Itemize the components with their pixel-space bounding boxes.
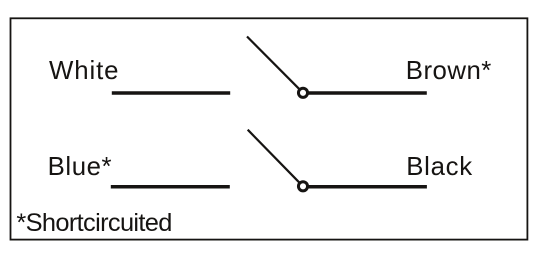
svg-text:Black: Black xyxy=(406,153,472,181)
svg-text:White: White xyxy=(49,57,119,85)
svg-text:*Shortcircuited: *Shortcircuited xyxy=(16,209,172,237)
svg-text:Blue*: Blue* xyxy=(48,153,112,181)
svg-text:Brown*: Brown* xyxy=(406,57,492,85)
